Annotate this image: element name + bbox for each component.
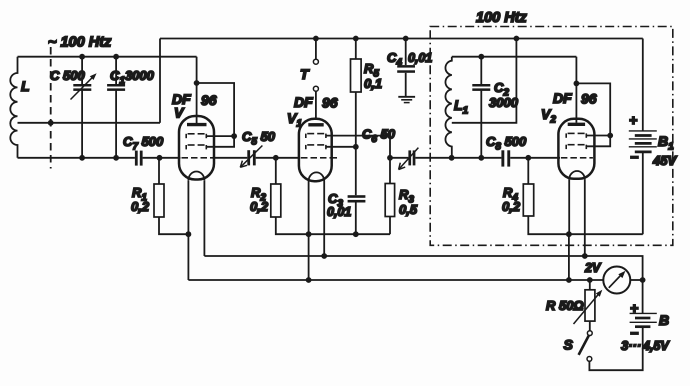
node V1 left filament row xyxy=(306,231,312,237)
meter 2V xyxy=(603,267,630,294)
svg-text:−: − xyxy=(630,149,638,165)
wire V to C5 xyxy=(213,157,248,159)
wire V2 filament left lead xyxy=(568,180,570,235)
svg-text:0,01: 0,01 xyxy=(327,205,351,219)
tube V1 filament xyxy=(309,172,325,181)
wire grid line y=157.8 left xyxy=(18,157,135,159)
tube V2 screen grid g2 xyxy=(566,133,586,137)
svg-text:V2: V2 xyxy=(541,106,556,126)
node C2 top xyxy=(478,54,484,60)
wire V screen stub xyxy=(206,135,234,137)
svg-text:C7 500: C7 500 xyxy=(123,134,164,153)
tube V envelope xyxy=(179,116,214,180)
svg-text:S: S xyxy=(564,337,574,353)
tube V1 envelope xyxy=(299,119,332,182)
svg-text:C 500: C 500 xyxy=(50,68,85,83)
capacitor C1 3000 xyxy=(107,57,125,158)
node V2 left filament bus xyxy=(566,277,572,283)
wire meter to battery node xyxy=(630,279,642,281)
terminal T jack xyxy=(313,39,318,121)
wire V1 screen to R3 node xyxy=(326,136,390,184)
node V1 right filament bus xyxy=(321,253,327,259)
svg-text:3···: 3··· xyxy=(621,338,641,353)
resistor R3 0,5 xyxy=(385,184,394,235)
tube V control grid g1 xyxy=(182,157,214,159)
svg-text:L: L xyxy=(21,78,30,94)
ground xyxy=(398,97,415,103)
capacitor C5 50 (trimmer) xyxy=(240,146,262,168)
wire filament bus lower y=280 xyxy=(188,279,603,281)
tube V2 suppressor grid g3 xyxy=(566,145,586,149)
node R4 row to V2 filament xyxy=(566,231,572,237)
svg-text:3000: 3000 xyxy=(489,95,519,110)
wire L1 tap to rail xyxy=(452,39,517,123)
svg-text:0,5: 0,5 xyxy=(399,202,418,217)
node grid V / C bottom xyxy=(79,155,85,161)
capacitor C2 3000 xyxy=(472,57,490,158)
svg-text:R 50Ω: R 50Ω xyxy=(546,298,584,313)
tube V anode plate xyxy=(187,123,207,126)
svg-text:+: + xyxy=(630,300,638,316)
wire tank top to V2 anode xyxy=(452,56,577,58)
svg-text:2V: 2V xyxy=(584,261,602,275)
capacitor C4 0,01 with ground xyxy=(397,36,415,97)
svg-text:T: T xyxy=(300,66,310,82)
node R1 to filament xyxy=(186,231,192,237)
node R5 C3 junction xyxy=(353,144,359,150)
wire V filament left lead xyxy=(187,180,189,280)
svg-text:C8 500: C8 500 xyxy=(486,134,527,153)
node C2 bottom xyxy=(478,155,484,161)
node C1 top xyxy=(113,54,119,60)
node C1 bottom xyxy=(113,155,119,161)
svg-text:96: 96 xyxy=(201,92,217,108)
node V2 screen tie xyxy=(607,133,613,139)
wire coil tap y=122.8 xyxy=(18,122,161,124)
node tap junction xyxy=(48,120,54,126)
resistor R2 0,2 xyxy=(271,158,390,234)
svg-text:DF: DF xyxy=(553,90,572,106)
tuning gang dashed link xyxy=(50,47,52,169)
wire C8 to V2 grid xyxy=(510,157,560,159)
node V1 left filament bus xyxy=(306,277,312,283)
resistor R5 0,1 xyxy=(351,36,362,147)
svg-text:DF: DF xyxy=(294,94,313,110)
wire V anode-screen tie xyxy=(197,83,235,147)
tube V1 control grid g1 xyxy=(301,157,337,159)
tube V1 anode plate xyxy=(308,123,323,126)
tube V2 anode plate xyxy=(568,123,585,126)
wire C6 into oscillator box xyxy=(415,157,451,159)
svg-text:0,01: 0,01 xyxy=(408,51,432,65)
wire oscillator grid line y=157.8 xyxy=(452,157,502,159)
wire V2 filament right lead xyxy=(584,180,586,256)
svg-text:96: 96 xyxy=(581,91,597,107)
wire V2 screen stub xyxy=(586,135,610,137)
wire V anode lead xyxy=(196,57,198,123)
capacitor C3 0,01 xyxy=(348,147,366,234)
wire V filament right lead xyxy=(203,180,205,256)
node V anode xyxy=(194,80,200,86)
tube V filament xyxy=(188,172,204,181)
node R3 top xyxy=(387,155,393,161)
tube V suppressor grid g3 xyxy=(186,145,206,149)
node C top xyxy=(79,54,85,60)
rheostat R50 xyxy=(574,280,603,324)
inductor L (antenna coil) xyxy=(10,57,17,158)
oscillator enclosure dash-dot box xyxy=(430,27,673,246)
svg-text:B: B xyxy=(659,312,669,328)
resistor R4 0,2 xyxy=(523,158,643,234)
wire V2 anode-screen tie xyxy=(576,83,610,146)
wire filament bus upper y=256 xyxy=(204,256,642,313)
wire V2 filament left lead lower xyxy=(568,234,570,280)
node V screen tie xyxy=(231,133,237,139)
svg-text:C5 50: C5 50 xyxy=(242,129,276,148)
wire top supply rail y=38.5 xyxy=(160,38,643,40)
wire C5 to V1 grid xyxy=(256,157,301,159)
resistor R1 0,2 xyxy=(154,158,188,234)
node R50 top xyxy=(587,277,593,283)
tube V2 envelope xyxy=(558,119,594,179)
svg-text:0,1: 0,1 xyxy=(364,76,382,91)
tube V1 suppressor grid g3 xyxy=(306,145,326,149)
node R2 top xyxy=(273,155,279,161)
svg-text:100 Htz: 100 Htz xyxy=(476,10,528,26)
node C3 bottom row xyxy=(353,231,359,237)
svg-text:+: + xyxy=(629,112,637,128)
wire V1 filament left lead xyxy=(308,181,310,280)
svg-text:B1: B1 xyxy=(658,133,674,153)
wire V1 filament right lead xyxy=(323,181,325,256)
svg-text:V1: V1 xyxy=(287,110,302,130)
node rail oscillator tap xyxy=(514,36,520,42)
tube V2 filament xyxy=(569,171,585,180)
svg-text:4,5V: 4,5V xyxy=(642,339,670,353)
battery B1 45V xyxy=(629,39,657,235)
battery B 4,5V xyxy=(630,313,657,326)
tube V screen grid g2 xyxy=(186,134,206,138)
inductor L1 xyxy=(445,57,451,158)
wire V2 anode lead xyxy=(575,57,577,123)
wire vertical x=160 rail to tap xyxy=(159,39,161,123)
capacitor C8 500 xyxy=(501,150,510,166)
capacitor C6 50 (trimmer) xyxy=(399,148,419,170)
node V2 anode xyxy=(574,81,580,87)
wire R3 node to C6 xyxy=(390,157,408,159)
svg-text:~ 100 Htz: ~ 100 Htz xyxy=(48,35,112,51)
node L1 bottom xyxy=(449,155,455,161)
node R4 top xyxy=(525,155,531,161)
tube V1 screen grid g2 xyxy=(306,134,326,138)
svg-text:0,2: 0,2 xyxy=(502,199,521,214)
node meter battery junction xyxy=(640,277,646,283)
svg-text:45V: 45V xyxy=(652,153,677,168)
switch S xyxy=(579,321,643,370)
svg-text:L1: L1 xyxy=(454,97,469,117)
svg-text:0,2: 0,2 xyxy=(131,199,150,214)
capacitor C (variable 500) xyxy=(71,57,97,158)
svg-text:96: 96 xyxy=(322,95,338,111)
svg-text:0,2: 0,2 xyxy=(250,199,269,214)
wire coil top to anode corner y=56.7 xyxy=(18,56,197,58)
node R1 top xyxy=(157,155,163,161)
tube V2 control grid g1 xyxy=(561,157,593,159)
wire V1 suppressor stub to R5/C3 node xyxy=(326,146,356,148)
wire C7 to tube V grid xyxy=(143,157,181,159)
node rail T xyxy=(313,36,319,42)
svg-text:C4: C4 xyxy=(387,50,402,69)
node V2 right filament bus xyxy=(582,253,588,259)
capacitor C7 500 xyxy=(135,151,143,166)
